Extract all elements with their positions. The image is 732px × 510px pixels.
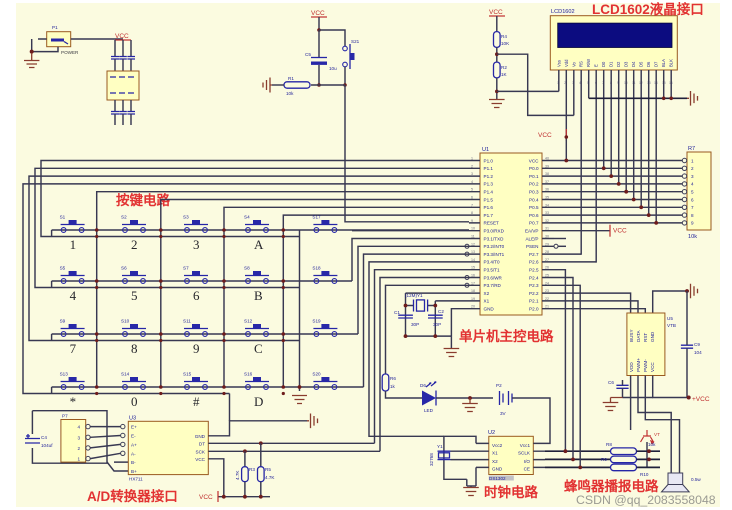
svg-text:P1.7: P1.7 <box>484 213 494 218</box>
svg-text:VDD: VDD <box>629 362 634 372</box>
ground left of R1 <box>263 78 272 93</box>
wire P1.3 row bus <box>23 184 469 421</box>
wire R4 to node <box>496 47 498 62</box>
svg-text:3: 3 <box>77 435 80 440</box>
node keypad junction <box>222 332 226 336</box>
svg-text:7: 7 <box>471 203 473 207</box>
wire X2 to crystal <box>406 292 470 294</box>
svg-text:P1.1: P1.1 <box>484 166 494 171</box>
wire P1.5 column bus <box>161 200 469 388</box>
svg-text:27: 27 <box>545 258 549 262</box>
wire P2.1 to voice DATA <box>554 301 638 313</box>
wire reset to MCU RESET <box>345 85 469 222</box>
node crystal right <box>433 304 437 308</box>
wire P2.7 to LCD RS <box>554 253 581 255</box>
svg-text:P0.6: P0.6 <box>529 213 539 218</box>
node crystal rail <box>404 334 408 338</box>
svg-text:X2: X2 <box>484 291 490 296</box>
capacitor C6 <box>608 380 629 388</box>
svg-text:C1: C1 <box>394 310 400 315</box>
wire ADC GND to right ground <box>208 421 307 436</box>
svg-text:19: 19 <box>471 297 475 301</box>
svg-text:E: E <box>594 64 599 67</box>
svg-text:P0.2: P0.2 <box>529 182 539 187</box>
node keypad junction <box>282 332 286 336</box>
svg-text:17: 17 <box>471 281 475 285</box>
svg-text:S12: S12 <box>244 319 253 324</box>
svg-text:24: 24 <box>545 281 549 285</box>
svg-text:D6: D6 <box>646 61 651 67</box>
svg-text:25: 25 <box>545 274 549 278</box>
connector P7 <box>61 414 90 463</box>
svg-text:S8: S8 <box>244 266 250 271</box>
wire battery to DS1302 Vcc1 <box>512 398 550 443</box>
wire reset node <box>311 84 345 86</box>
node P0 junction 3 <box>617 182 621 186</box>
wire P2.4 to IO <box>554 278 573 460</box>
push-button S17 <box>312 215 337 233</box>
wire keypad row 1 line <box>52 230 469 237</box>
wire P0 bus line 8 <box>554 222 682 224</box>
svg-text:Vss: Vss <box>556 60 561 67</box>
svg-text:C5: C5 <box>305 52 311 57</box>
svg-text:C2: C2 <box>438 309 444 314</box>
svg-text:30P: 30P <box>411 322 419 327</box>
svg-text:29: 29 <box>545 242 549 246</box>
svg-text:D3: D3 <box>624 61 629 67</box>
wire P1.6 column bus <box>224 207 469 387</box>
svg-text:4: 4 <box>691 182 694 187</box>
ground below R2 <box>489 100 505 108</box>
svg-text:P0.7: P0.7 <box>529 221 539 226</box>
svg-text:PSEN: PSEN <box>526 244 539 249</box>
svg-text:单片机主控电路: 单片机主控电路 <box>459 328 554 344</box>
node keypad junction <box>222 279 226 283</box>
wire keypad row 3 line <box>52 334 358 341</box>
svg-text:10u: 10u <box>329 66 337 71</box>
svg-text:A/D转换器接口: A/D转换器接口 <box>87 488 178 504</box>
svg-text:R5: R5 <box>265 467 271 472</box>
svg-text:C4: C4 <box>41 435 47 440</box>
svg-text:8: 8 <box>131 341 138 356</box>
svg-text:2: 2 <box>691 166 694 171</box>
svg-text:(12M)Y1: (12M)Y1 <box>405 293 423 298</box>
svg-text:B-: B- <box>131 460 136 465</box>
svg-text:U3: U3 <box>129 416 136 422</box>
svg-text:P3.2/INT0: P3.2/INT0 <box>484 244 505 249</box>
wire VCC rails to cap bank <box>115 40 131 56</box>
wire R1 to ground <box>272 84 284 86</box>
wire P1.7 column bus <box>283 215 469 387</box>
push-button S10 <box>121 319 146 337</box>
svg-text:18: 18 <box>471 289 475 293</box>
pin bubble PSEN <box>554 244 558 248</box>
wire SCLK line <box>545 450 611 452</box>
svg-text:1: 1 <box>70 237 77 252</box>
node keypad junction <box>159 279 163 283</box>
svg-text:6: 6 <box>691 197 694 202</box>
svg-text:104uf: 104uf <box>41 443 53 448</box>
svg-text:S2: S2 <box>121 215 127 220</box>
svg-text:16: 16 <box>471 274 475 278</box>
capacitor C1 <box>394 310 419 327</box>
ground keypad col5 <box>292 396 307 404</box>
wire P0 bus line 3 <box>554 183 682 185</box>
push-button S4 <box>244 215 269 233</box>
wire P3.0 stub to row1 <box>352 230 469 232</box>
svg-text:D4: D4 <box>631 61 636 67</box>
svg-text:D0: D0 <box>601 61 606 67</box>
wire P0 bus line 1 <box>554 167 682 169</box>
ground DS1302 <box>463 488 479 496</box>
svg-text:P3.1/TXD: P3.1/TXD <box>484 236 505 241</box>
ground LED <box>462 398 478 412</box>
wire C6 to gnd <box>623 380 653 398</box>
wire P3.3 to keypad col5 <box>364 254 470 387</box>
svg-text:U5: U5 <box>667 316 673 321</box>
resistor R5 <box>258 467 276 482</box>
svg-text:0.5w: 0.5w <box>691 477 701 482</box>
node divider mid <box>495 52 499 56</box>
svg-text:VTB: VTB <box>667 323 676 328</box>
push-button S9 <box>60 319 85 337</box>
wire reset vcc down <box>318 17 320 30</box>
power VCC mid label <box>538 129 568 161</box>
svg-text:RS: RS <box>579 61 584 67</box>
push-button S5 <box>60 266 85 284</box>
svg-text:CSDN @qq_2083558048: CSDN @qq_2083558048 <box>576 493 716 507</box>
push-button S6 <box>121 266 146 284</box>
wire P3.7 to LED resistor <box>386 285 470 374</box>
wire P2.2 to voice BUSY <box>554 293 631 313</box>
pin bubble P3.6/WR <box>465 276 469 280</box>
wire P3.4 to DS1302 area <box>369 262 469 436</box>
push-button S15 <box>183 372 208 390</box>
svg-text:P2.7: P2.7 <box>529 252 539 257</box>
svg-text:8: 8 <box>691 213 694 218</box>
svg-text:P2.2: P2.2 <box>529 291 539 296</box>
svg-text:P2.4: P2.4 <box>529 275 539 280</box>
svg-text:I/O: I/O <box>524 459 531 464</box>
crystal Y1 32768 <box>429 444 451 466</box>
svg-text:P3.7/RD: P3.7/RD <box>484 283 502 288</box>
wire voice PWM+ to speaker <box>638 376 671 474</box>
wire X1 to crystal <box>435 300 469 302</box>
wire PSEN stub <box>558 245 566 247</box>
node P0 junction 1 <box>602 166 606 170</box>
node LED gnd <box>468 396 472 400</box>
wire P2.5 to SCLK <box>554 270 565 452</box>
wire P1.2 row bus <box>29 176 469 340</box>
svg-text:9: 9 <box>193 341 200 356</box>
svg-text:P2.0: P2.0 <box>529 307 539 312</box>
svg-text:R4: R4 <box>501 34 507 39</box>
svg-text:A: A <box>254 237 264 252</box>
svg-text:34: 34 <box>545 203 549 207</box>
svg-text:VCC: VCC <box>199 494 213 501</box>
wire P2.6 to LCD E <box>554 261 596 263</box>
svg-text:P3.4/T0: P3.4/T0 <box>484 260 501 265</box>
capacitor C4 <box>25 434 53 448</box>
wire voice gnd vertical through C9 <box>686 291 688 398</box>
wire VT to resistor node <box>646 442 648 467</box>
op-amp U2 DS1302 <box>488 430 533 481</box>
svg-text:GND: GND <box>484 307 495 312</box>
node P1 gnd <box>30 50 34 54</box>
wire IO line <box>545 458 611 460</box>
svg-text:S10: S10 <box>121 319 130 324</box>
svg-text:DATA: DATA <box>636 329 641 342</box>
svg-text:2: 2 <box>77 446 80 451</box>
node keypad junction <box>95 279 99 283</box>
wire cap C5 <box>318 30 320 85</box>
svg-text:P2.5: P2.5 <box>529 268 539 273</box>
svg-text:6: 6 <box>471 196 473 200</box>
svg-text:#: # <box>193 394 200 409</box>
svg-text:B+: B+ <box>131 469 137 474</box>
svg-text:35: 35 <box>545 196 549 200</box>
svg-text:VCC: VCC <box>650 362 655 372</box>
svg-text:6: 6 <box>193 288 200 303</box>
svg-text:P1: P1 <box>52 25 58 30</box>
push-button S8 <box>244 266 269 284</box>
svg-text:P3.5/T1: P3.5/T1 <box>484 268 501 273</box>
wire gnd node to LCD Vss <box>497 90 559 92</box>
svg-text:S6: S6 <box>121 266 127 271</box>
power VCC at EA <box>610 225 627 237</box>
wire crystal left branch <box>405 293 407 336</box>
svg-text:10k: 10k <box>688 234 697 240</box>
svg-text:P1.0: P1.0 <box>484 158 494 163</box>
svg-text:VCC: VCC <box>489 9 503 16</box>
wire P2.3 to CE <box>554 285 580 467</box>
wire P1.4 column bus <box>97 192 469 387</box>
svg-text:P2: P2 <box>496 383 502 388</box>
LCD1602 module <box>550 9 677 70</box>
node keypad junction <box>95 385 99 389</box>
wire cap bank tails <box>115 114 131 125</box>
node resistor taps <box>243 449 247 453</box>
wire voice VDD down <box>630 376 632 431</box>
resistor R8 <box>606 442 656 455</box>
svg-text:1: 1 <box>77 457 80 462</box>
pin bubble P3.7/RD <box>465 283 469 287</box>
svg-text:9: 9 <box>691 221 694 226</box>
svg-text:4: 4 <box>471 180 473 184</box>
svg-text:S20: S20 <box>312 372 321 377</box>
wire P0 bus line 6 <box>554 206 682 208</box>
wire P0 bus line 4 <box>554 191 682 193</box>
resistor R2 <box>494 62 508 78</box>
svg-text:7: 7 <box>70 341 77 356</box>
wire LED to gnd node <box>436 397 493 399</box>
node crystal left <box>404 304 408 308</box>
push-button S20 <box>312 372 337 390</box>
svg-text:VCC: VCC <box>613 228 627 235</box>
wire keypad row 4 line <box>52 387 364 394</box>
svg-text:VT: VT <box>654 432 660 437</box>
svg-text:10: 10 <box>471 227 475 231</box>
svg-text:B: B <box>254 288 263 303</box>
svg-text:时钟电路: 时钟电路 <box>484 484 538 500</box>
push-button S13 <box>60 372 85 390</box>
wire CE line <box>545 466 611 468</box>
svg-text:S14: S14 <box>121 372 130 377</box>
node keypad junction <box>282 385 286 389</box>
svg-text:104: 104 <box>694 350 702 355</box>
wire rail to ground <box>450 336 452 348</box>
divider VCC symbol <box>489 9 505 16</box>
wire P3.5 to ADC DT <box>375 270 470 444</box>
svg-text:蜂鸣器播报电路: 蜂鸣器播报电路 <box>564 478 659 494</box>
op-amp U1 MCU AT89C51 <box>480 147 542 315</box>
svg-text:C: C <box>254 341 263 356</box>
wire voice VCC pin down <box>653 376 689 398</box>
node keypad junction <box>222 228 226 232</box>
node P0 junction 6 <box>639 205 643 209</box>
svg-text:40: 40 <box>545 157 549 161</box>
svg-text:R8: R8 <box>606 442 612 447</box>
svg-text:S5: S5 <box>60 266 66 271</box>
resistor R4 <box>494 32 511 48</box>
svg-text:P0.0: P0.0 <box>529 166 539 171</box>
svg-text:P7: P7 <box>62 414 68 419</box>
svg-text:10k: 10k <box>286 91 294 96</box>
node keypad junction <box>95 332 99 336</box>
svg-text:VCC: VCC <box>538 132 552 139</box>
svg-text:D7: D7 <box>654 61 659 67</box>
svg-text:3: 3 <box>471 172 473 176</box>
svg-text:R/W: R/W <box>586 59 591 67</box>
svg-text:S15: S15 <box>183 372 192 377</box>
pin circles ADC input <box>121 424 125 428</box>
wire ADC VCC pin down <box>208 459 224 497</box>
svg-text:D1: D1 <box>609 61 614 67</box>
wire P0 bus line 0 <box>554 160 682 162</box>
svg-text:28: 28 <box>545 250 549 254</box>
node keypad junction <box>159 332 163 336</box>
svg-text:S9: S9 <box>60 319 66 324</box>
op-amp U3 HX711 ADC <box>128 416 208 482</box>
svg-text:U2: U2 <box>488 430 495 436</box>
wire R2 bottom <box>496 78 498 99</box>
svg-text:26: 26 <box>545 266 549 270</box>
svg-text:4.7K: 4.7K <box>265 475 275 480</box>
svg-text:P0.1: P0.1 <box>529 174 539 179</box>
ground voice chip <box>687 284 698 299</box>
diode LED D6 <box>420 382 436 413</box>
reset VCC symbol <box>311 10 327 17</box>
capacitor C5 electrolytic <box>305 52 337 71</box>
node divider gnd <box>495 90 499 94</box>
wire regulator to bottom caps <box>115 100 131 111</box>
svg-text:38: 38 <box>545 172 549 176</box>
svg-text:X1: X1 <box>492 450 498 455</box>
svg-text:P1.3: P1.3 <box>484 182 494 187</box>
wire P1.0 row bus <box>41 161 469 237</box>
svg-text:BLK: BLK <box>669 59 674 67</box>
svg-text:36: 36 <box>545 188 549 192</box>
ground right of LCD <box>687 91 698 106</box>
svg-text:R3: R3 <box>249 467 255 472</box>
capacitor C9 <box>681 342 702 355</box>
svg-text:R6: R6 <box>390 376 396 381</box>
svg-text:33: 33 <box>545 211 549 215</box>
svg-text:D5: D5 <box>639 61 644 67</box>
wire LCD gnd rail right <box>589 97 687 99</box>
push-button S12 <box>244 319 269 337</box>
capacitor C2 <box>428 309 444 327</box>
svg-text:S21: S21 <box>351 39 360 44</box>
svg-text:P0.4: P0.4 <box>529 197 539 202</box>
svg-text:S11: S11 <box>183 319 191 324</box>
resistor R1 <box>284 76 310 96</box>
transistor VT1 <box>641 430 661 444</box>
wire resistor outputs <box>637 451 661 467</box>
node keypad junction <box>282 228 286 232</box>
svg-text:5: 5 <box>691 190 694 195</box>
resistor R10 <box>611 464 649 477</box>
wire caps to regulator block <box>115 59 131 71</box>
svg-text:D6: D6 <box>420 383 426 388</box>
wire ADC enclosure loop <box>32 411 107 464</box>
svg-text:1: 1 <box>691 158 694 163</box>
svg-text:22: 22 <box>545 297 549 301</box>
svg-text:RESET: RESET <box>484 221 500 226</box>
svg-text:30P: 30P <box>433 322 441 327</box>
ground crystal <box>444 349 460 357</box>
svg-text:POWER: POWER <box>61 50 79 55</box>
svg-text:CE: CE <box>524 467 530 472</box>
node P0 junction 0 <box>564 159 568 163</box>
svg-text:1k: 1k <box>390 384 396 389</box>
wire LCD data verticals <box>604 70 657 223</box>
node keypad junction <box>159 228 163 232</box>
svg-text:PWM+: PWM+ <box>636 358 641 372</box>
node P0 junction 8 <box>654 221 658 225</box>
svg-text:P1.2: P1.2 <box>484 174 494 179</box>
svg-text:Vcc1: Vcc1 <box>520 443 531 448</box>
wire R6 to LED <box>386 391 423 398</box>
wire ADC VCC rail <box>218 482 270 497</box>
svg-text:HX711: HX711 <box>129 477 143 482</box>
svg-text:P3.6/WR: P3.6/WR <box>484 275 503 280</box>
svg-text:U1: U1 <box>482 147 489 153</box>
wire P0 bus line 5 <box>554 199 682 201</box>
wire ADC SCK line <box>208 450 380 452</box>
wire vcc to R4 <box>496 16 498 32</box>
resistor R6 LED <box>382 374 396 391</box>
svg-text:P2.3: P2.3 <box>529 283 539 288</box>
svg-text:S13: S13 <box>60 372 69 377</box>
ground ADC right <box>307 414 318 429</box>
LCD pin labels <box>556 59 673 67</box>
pin numbers U1 <box>471 157 549 309</box>
svg-text:7: 7 <box>691 205 694 210</box>
wire P3.1 to keypad col5 <box>352 239 469 282</box>
svg-text:P1.6: P1.6 <box>484 205 494 210</box>
node col5 gnd <box>298 385 302 389</box>
node keypad junction <box>159 385 163 389</box>
svg-text:21: 21 <box>545 305 549 309</box>
svg-text:4: 4 <box>70 288 77 303</box>
svg-text:P2.1: P2.1 <box>529 299 539 304</box>
svg-text:12: 12 <box>471 242 475 246</box>
svg-text:Vo: Vo <box>571 61 576 67</box>
svg-text:VCC: VCC <box>529 158 539 163</box>
svg-text:GND: GND <box>492 467 503 472</box>
pin bubble P3.3/INT1 <box>465 252 469 256</box>
